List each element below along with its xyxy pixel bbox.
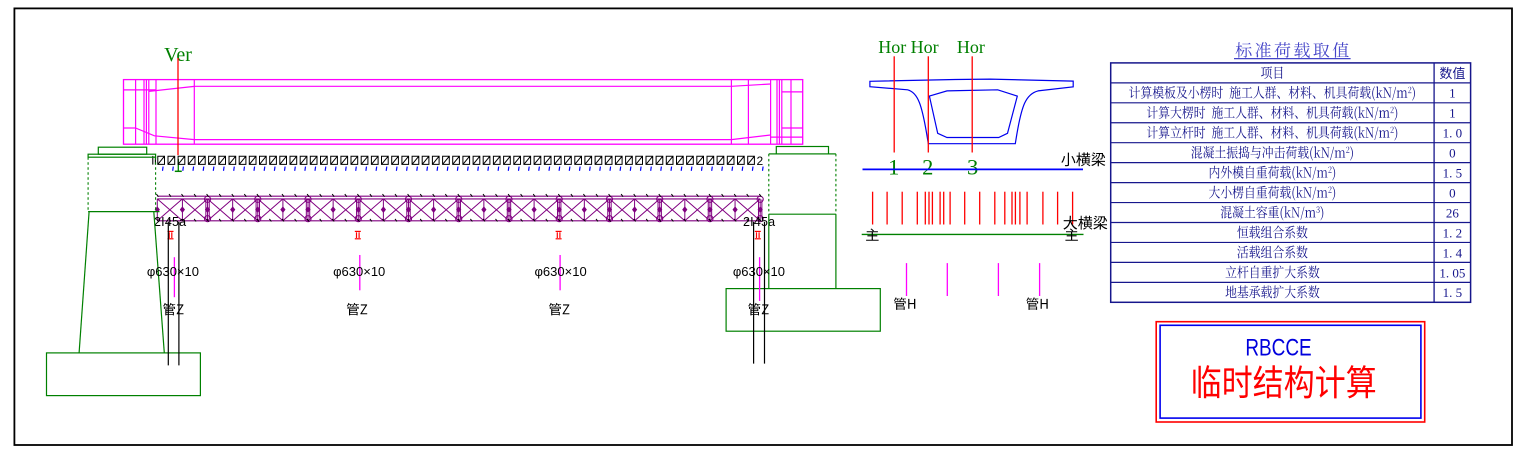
svg-text:1. 5: 1. 5 [1443,285,1463,300]
svg-text:1: 1 [1449,86,1456,101]
svg-text:1: 1 [888,154,899,179]
svg-text:φ630×10: φ630×10 [733,264,785,279]
svg-text:2: 2 [922,154,933,179]
svg-text:1. 4: 1. 4 [1443,245,1463,260]
svg-text:3: 3 [967,154,978,179]
svg-text:Hor: Hor [911,37,939,57]
svg-text:Hor: Hor [878,37,906,57]
svg-text:RBCCE: RBCCE [1245,333,1311,361]
svg-text:2: 2 [757,154,764,168]
svg-text:26: 26 [1446,205,1460,220]
svg-text:1: 1 [1449,106,1456,121]
svg-text:φ630×10: φ630×10 [333,264,385,279]
svg-text:2I45a: 2I45a [154,215,186,229]
svg-text:0: 0 [1449,185,1456,200]
svg-text:1. 5: 1. 5 [1443,166,1463,181]
svg-text:1. 0: 1. 0 [1443,126,1463,141]
svg-text:数值: 数值 [1439,66,1465,81]
svg-text:0: 0 [1449,146,1456,161]
svg-text:Hor: Hor [957,37,985,57]
svg-text:2I45a: 2I45a [743,215,775,229]
svg-text:φ630×10: φ630×10 [147,264,199,279]
svg-text:φ630×10: φ630×10 [535,264,587,279]
svg-text:1. 05: 1. 05 [1439,265,1465,280]
svg-text:1. 2: 1. 2 [1443,225,1463,240]
